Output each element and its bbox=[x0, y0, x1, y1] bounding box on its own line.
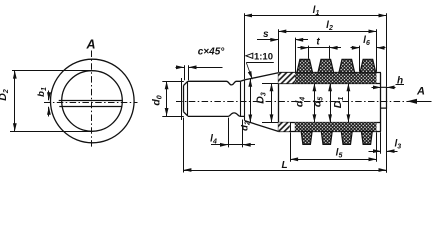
knurl band crosshatch top bbox=[295, 73, 376, 84]
dim D2 line bbox=[14, 71, 16, 132]
outer circle (knurled rim) bbox=[51, 59, 135, 143]
dim L line bbox=[183, 170, 386, 172]
dim t line bbox=[298, 47, 342, 49]
body outer bottom line bbox=[278, 131, 381, 133]
shaft left face double line bbox=[181, 78, 183, 120]
ext line tooth4 left (l6) bbox=[359, 46, 361, 72]
section hatch collar bottom bbox=[278, 122, 290, 131]
label h underline bbox=[396, 84, 405, 86]
svg-text:1:10: 1:10 bbox=[254, 51, 273, 62]
dim d2 line bbox=[250, 79, 252, 123]
knurl tooth top 4 bbox=[360, 59, 376, 73]
knurl band crosshatch bottom bbox=[295, 122, 377, 131]
ext line knurl right lower (l5/l2) bbox=[376, 132, 378, 162]
chamfer bottom diagonal bbox=[184, 112, 188, 116]
ext line shaft left face lower (L left) bbox=[183, 118, 185, 173]
ext line groove start (l4 left) bbox=[228, 118, 230, 148]
ext line body right face lower (l3 left) bbox=[380, 132, 382, 154]
svg-text:A: A bbox=[85, 38, 95, 52]
slot lower line bbox=[59, 106, 122, 108]
knurl tooth bottom 3 bbox=[341, 131, 352, 144]
body right face bbox=[380, 73, 382, 132]
dim c left arrow bbox=[176, 67, 185, 69]
ext lines D3 bbox=[262, 83, 278, 85]
dim h right arrow bbox=[387, 87, 396, 89]
cone bottom line (taper 1:10) bbox=[245, 121, 278, 132]
bore bottom line bbox=[278, 122, 381, 124]
section hatch collar top bbox=[278, 73, 295, 84]
dim l4 mid line bbox=[228, 144, 243, 146]
dim l6 left arrow bbox=[351, 47, 360, 49]
shaft bottom line bbox=[188, 113, 245, 117]
collar top edge bbox=[240, 80, 245, 82]
ext line knurl left lower (l5 left) bbox=[290, 132, 292, 162]
dim c leader line bbox=[189, 67, 223, 69]
ext line body left face upper (l2/s) bbox=[278, 29, 280, 72]
svg-text:c×45°: c×45° bbox=[198, 47, 226, 58]
knurl start edge top bbox=[295, 73, 297, 84]
shaft left face bbox=[183, 86, 185, 112]
dim s right arrow bbox=[295, 39, 308, 41]
dim s left arrow bbox=[257, 39, 278, 41]
stub (boss) outline bbox=[381, 87, 387, 108]
knurl tooth bottom 1 bbox=[301, 131, 312, 144]
dim l4 right arrow bbox=[243, 144, 255, 146]
svg-text:L: L bbox=[281, 160, 287, 171]
dim l4 left arrow bbox=[211, 144, 228, 146]
ext line tooth1 right (t left) bbox=[308, 46, 310, 59]
dim l3 right arrow bbox=[387, 151, 398, 153]
centerline horizontal (side view) bbox=[176, 101, 411, 103]
dim h left arrow bbox=[372, 87, 382, 89]
dim l1 line bbox=[244, 15, 387, 17]
ext lines d0 bbox=[162, 81, 184, 83]
chamfer edge line bbox=[187, 81, 189, 116]
taper leader underline bbox=[246, 62, 273, 64]
collar face line bbox=[240, 81, 242, 116]
dim D1 line bbox=[348, 83, 350, 122]
dim d4 line bbox=[314, 83, 316, 122]
dim b1 line upper bbox=[48, 91, 50, 101]
body left face bbox=[278, 73, 280, 132]
slot upper line bbox=[59, 100, 123, 102]
dim l5 line bbox=[290, 159, 376, 161]
ext line tooth2 right (t right) bbox=[329, 46, 331, 59]
dim l2 line bbox=[278, 31, 376, 33]
cone top line (taper 1:10) bbox=[245, 73, 278, 80]
ext line knurl start upper (s right) bbox=[295, 38, 297, 73]
ext line shaft face top (c) bbox=[184, 65, 186, 80]
chamfer top diagonal bbox=[184, 81, 188, 85]
bore top line bbox=[278, 83, 381, 85]
knurl tooth top 2 bbox=[318, 59, 334, 73]
ext line knurl right edge upper (l2/l6) bbox=[376, 29, 378, 72]
dim l6 right arrow bbox=[377, 47, 386, 49]
knurl tooth bottom 2 bbox=[321, 131, 332, 144]
knurl tooth top 1 bbox=[297, 59, 313, 73]
svg-text:A: A bbox=[416, 86, 425, 98]
ext line stub face lower (l3/L right) bbox=[386, 109, 388, 173]
view direction arrow A bbox=[409, 101, 432, 103]
inner circle (hub) bbox=[62, 71, 123, 132]
taper leader diagonal bbox=[246, 63, 252, 80]
ext line cone base (l1 left) bbox=[244, 13, 246, 79]
centerline vertical (front view) bbox=[91, 51, 93, 149]
ext line stub face upper (l1 right) bbox=[386, 13, 388, 87]
dim D2 extension top bbox=[12, 70, 91, 72]
knurl start edge bottom bbox=[290, 122, 292, 131]
shaft top line bbox=[188, 81, 241, 85]
svg-text:s: s bbox=[263, 29, 269, 40]
dim d5 line bbox=[330, 83, 332, 122]
knurl tooth top 3 bbox=[339, 59, 355, 73]
dim l3 left arrow bbox=[369, 151, 382, 153]
ext line chamfer top (c) bbox=[188, 65, 190, 80]
knurl tooth bottom 4 bbox=[361, 131, 372, 144]
body outer top line bbox=[278, 72, 381, 74]
taper symbol triangle bbox=[246, 53, 253, 58]
ext line cone base lower (l4 right) bbox=[242, 120, 244, 148]
centerline horizontal (front view) bbox=[44, 102, 138, 104]
dim D3 line bbox=[271, 83, 273, 122]
cone base edge bbox=[244, 80, 246, 121]
dim D2 extension bottom bbox=[10, 131, 91, 133]
dim b1 line lower bbox=[48, 107, 50, 117]
dim d0 line bbox=[166, 81, 168, 116]
